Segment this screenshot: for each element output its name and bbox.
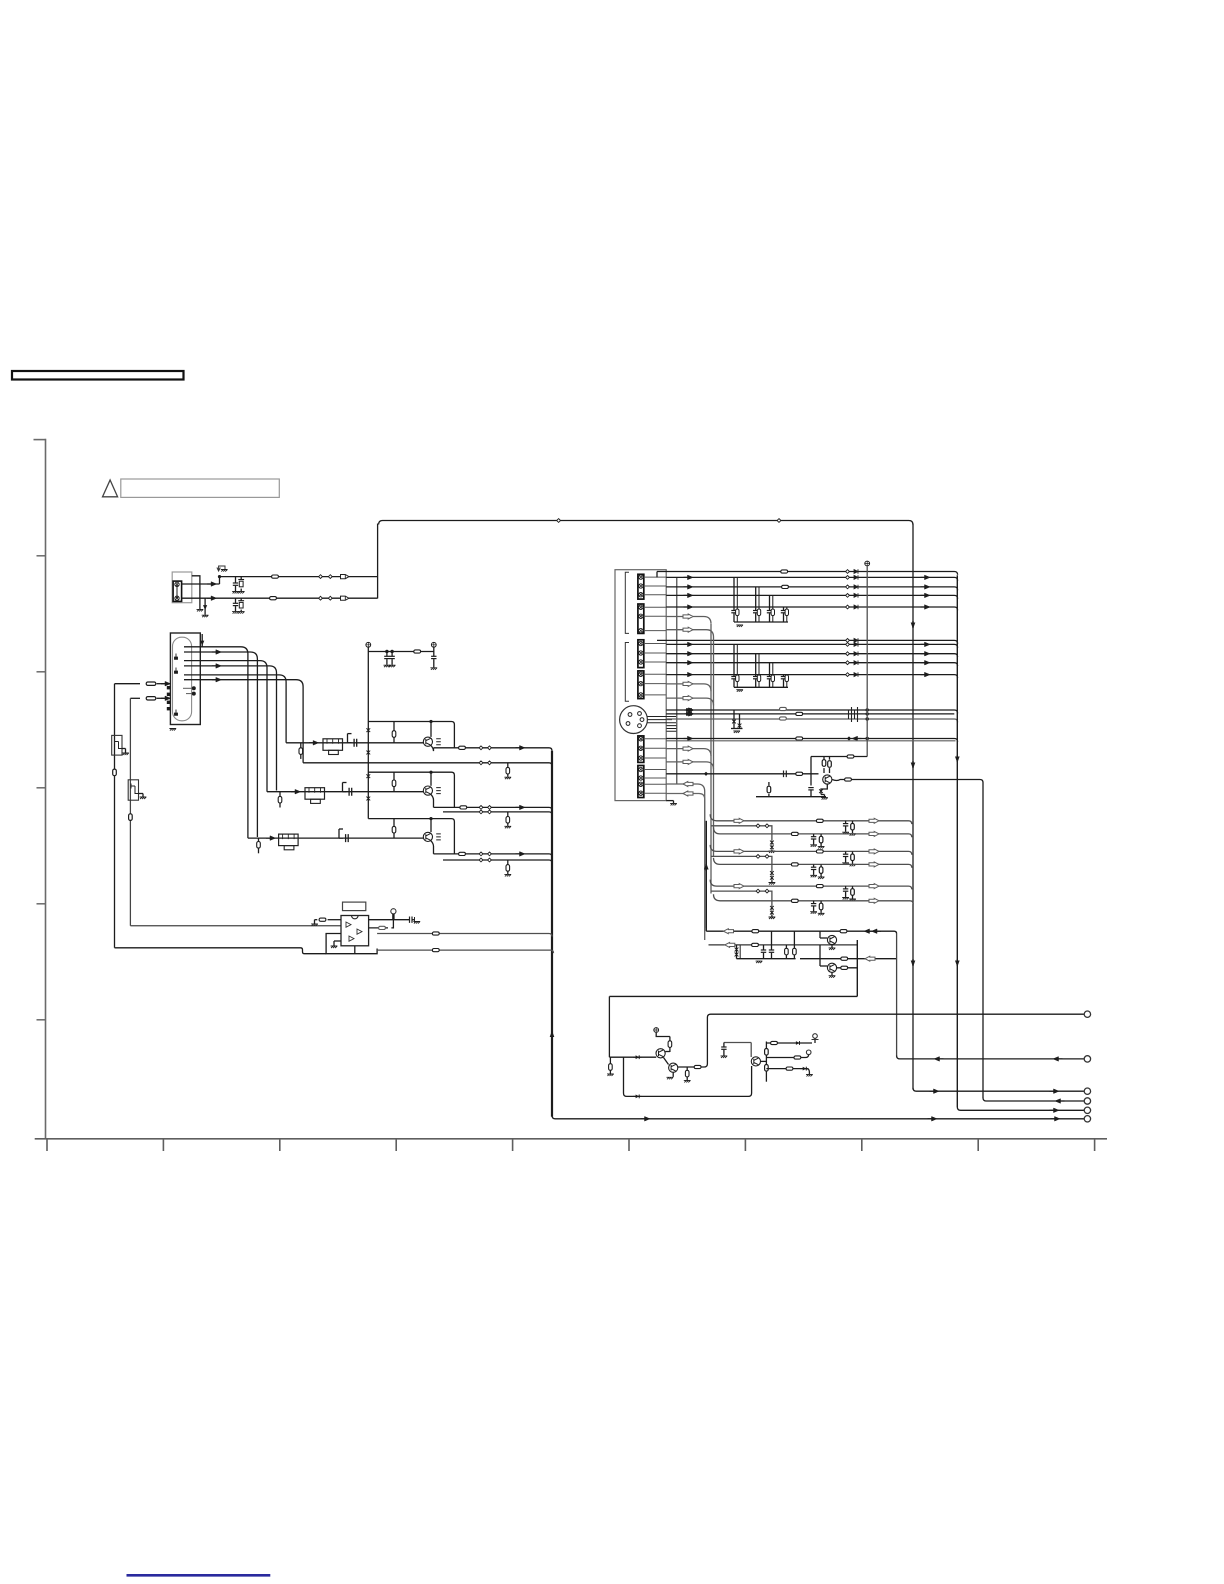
stub pin 2 block 2: [644, 615, 666, 617]
capacitor C1 to ground: [235, 577, 237, 583]
CN2 keying mark 1: [175, 654, 178, 660]
capacitor pair h833.9: [813, 834, 815, 837]
wire CN1 pin2 out: [182, 597, 378, 599]
wire monitor row 6: [714, 858, 912, 868]
junction dot rail a: [385, 650, 388, 653]
wire aux row 7: [666, 784, 705, 940]
pin 1 of block 1: [639, 575, 643, 579]
border bottom tick 7: [744, 1139, 746, 1151]
capacitor pair g886.1: [845, 886, 847, 889]
wire row W4 out: [666, 663, 957, 666]
ground Q10: [831, 973, 833, 976]
diode D2: [633, 1095, 642, 1099]
connector CN1 outer shell: [172, 572, 192, 603]
transistor Q1: [430, 722, 432, 737]
wire Q10 out: [837, 967, 858, 969]
signal arrow W2: [684, 642, 694, 647]
pin 3 of block 3: [639, 660, 643, 664]
ferrite bead on top lead: [272, 575, 279, 578]
bead mid out: [794, 1056, 801, 1059]
arrow down on CN2 entry: [201, 641, 204, 645]
terminal circle 6: [1084, 1116, 1090, 1122]
title block rectangle top-left: [12, 371, 184, 380]
open arrow aux row 3: [683, 681, 693, 686]
bead g886.1: [816, 885, 823, 888]
wire row 958 right: [800, 958, 897, 960]
ferrite bead output 2: [460, 806, 467, 809]
terminal circle 4: [1084, 1098, 1090, 1104]
wire U1 feedback loop: [326, 934, 377, 954]
ferrite bead on bottom lead: [270, 597, 277, 600]
wire aux row 1: [666, 617, 711, 624]
transistor Q8 switch box: [128, 780, 138, 800]
stub pin 3 block 4: [644, 694, 666, 696]
wire inner loop vertical: [129, 698, 131, 926]
diode pair row 5: [770, 871, 774, 876]
signal arrow V2: [684, 575, 694, 580]
capacitor column g2-3: [769, 663, 771, 677]
stub pin 1 block 4: [644, 673, 666, 675]
wire row video Y: [666, 710, 957, 713]
terminal circle mid: [806, 1050, 811, 1055]
signal arrow bottom bus b: [928, 1117, 938, 1122]
ground CN2: [169, 729, 176, 731]
open arrow aux row 7: [683, 782, 693, 787]
left arrow term4: [1055, 1099, 1065, 1104]
border bottom tick 4: [395, 1139, 397, 1151]
resistor bank r2: [793, 931, 795, 948]
wire bias bus B: [709, 944, 858, 946]
bead power elbow: [847, 755, 854, 758]
capacitor link hook C1: [347, 734, 349, 743]
capacitor coupling C1a: [348, 733, 352, 735]
thick arrow video Y: [685, 708, 695, 713]
resistor bias lower: [609, 1057, 611, 1064]
wire monitor row 7: [710, 880, 912, 890]
connector diamond sync: [847, 736, 851, 740]
power terminal U1: [391, 909, 396, 914]
junction dot rail b: [390, 650, 393, 653]
connector block CN3-3: [638, 640, 644, 668]
connector cluster W4: [846, 661, 850, 665]
pin 2 of block 3: [639, 651, 643, 655]
capacitor pair g820.8: [845, 821, 847, 824]
capacitor column g2-2: [755, 654, 757, 677]
signal arrow V3: [684, 585, 694, 590]
wire supply bus channel 2: [368, 772, 454, 807]
resistor bias R2: [393, 772, 395, 780]
bead row 958: [841, 957, 848, 960]
junction mark pair shield 3: [479, 858, 483, 862]
border left tick 3: [37, 787, 46, 789]
ferrite bead on rail: [414, 650, 421, 653]
ground Q7: [122, 748, 126, 750]
wire channel 1 signal row: [286, 742, 423, 744]
wire row V3 out: [666, 587, 957, 590]
bead sync: [796, 737, 803, 740]
connector CN1 body: [173, 581, 182, 601]
signal arrow channel 1: [309, 741, 319, 746]
resistor on loop inner: [129, 814, 133, 821]
label box above IC: [343, 902, 366, 911]
junction mark pair output 3: [479, 852, 483, 856]
power terminal Q11: [654, 1028, 659, 1033]
wire row video C: [666, 713, 954, 715]
junction diamonds row 8: [756, 889, 760, 893]
wire row sync shield: [666, 740, 955, 742]
border bottom tick 5: [512, 1139, 514, 1151]
CN2 inner pin b: [192, 692, 196, 696]
resistor on loop outer: [113, 769, 117, 776]
wire output row channel 3: [434, 854, 553, 857]
CN2 edge contact 2: [167, 693, 170, 696]
board-edge arrow on top lead: [341, 575, 349, 579]
connector cluster W5: [846, 673, 850, 677]
border left tick 2: [37, 671, 46, 673]
border bottom tick 9: [977, 1139, 979, 1151]
signal arrow into CN2 upper: [161, 681, 171, 686]
bead Q6 output: [845, 778, 852, 781]
CN1 drain wire: [204, 598, 206, 615]
CN2 keying mark 2: [175, 668, 178, 674]
resistor shield R1s: [507, 763, 509, 768]
wire Q11 collector: [665, 1051, 670, 1053]
signal arrow term5: [1050, 1108, 1060, 1113]
CN4 pin 1: [638, 712, 642, 716]
capacitor C4 electrolytic to ground: [240, 598, 242, 601]
wire fan wire 1: [184, 647, 248, 838]
wire fan wire 4: [184, 666, 277, 791]
delay line DL3: [279, 834, 299, 846]
diode column video a: [733, 710, 735, 726]
module internal riser: [676, 577, 678, 784]
wire U1 right pin2: [369, 920, 394, 928]
border frame top-left hook: [34, 439, 46, 441]
ground U1 pin1: [315, 919, 318, 921]
capacitor bank c2: [771, 931, 773, 950]
junction mark pair output 1: [479, 746, 483, 750]
capacitor emitter C2e: [436, 788, 441, 794]
wire Q9 base: [820, 937, 827, 939]
open arrow aux row 8: [683, 791, 693, 796]
border bottom tick 1: [46, 1139, 48, 1151]
diode column video b: [739, 714, 741, 729]
connector cluster V2: [846, 576, 850, 580]
CN2 edge contact 1: [167, 686, 170, 689]
module internal stub r1: [656, 572, 658, 578]
junction mark 2 on top bus: [777, 519, 781, 523]
resistor bias R3: [393, 819, 395, 827]
bead g851.4: [816, 850, 823, 853]
pin 3 of block 2: [639, 628, 643, 632]
ground Q8: [139, 793, 144, 795]
capacitor pair h864.4: [813, 864, 815, 867]
capacitor coupling C2a: [343, 782, 347, 784]
warning triangle: [103, 480, 118, 497]
terminal circle 3: [1084, 1088, 1090, 1094]
signal arrow channel 3: [266, 836, 276, 841]
capacitor column g1-1: [733, 577, 735, 610]
junction mark pair on top lead: [319, 575, 323, 579]
wire row video shield: [666, 719, 957, 722]
capacitor bank c1: [763, 945, 765, 950]
transistor Q3: [430, 819, 432, 833]
connector block CN3-5: [638, 736, 644, 763]
junction mark pair shield 2: [479, 810, 483, 814]
pin 2 of block 6: [639, 776, 643, 780]
wire aux row 6: [666, 762, 713, 769]
connector block CN3-4: [638, 671, 644, 699]
capacitor rail Cb: [391, 652, 393, 657]
open arrow aux row 6: [683, 759, 693, 764]
CN4 pin 2: [640, 718, 644, 722]
ferrite bead output 3: [459, 852, 466, 855]
wire terminal row 5: [957, 1107, 1084, 1110]
pin 1 of block 6: [639, 767, 643, 771]
open arrow bias A: [724, 929, 734, 934]
arrow down on drain: [204, 606, 207, 610]
ferrite bead U1 in: [319, 918, 326, 921]
wire black riser mid: [705, 821, 707, 931]
connector cluster V1: [846, 570, 850, 574]
thick arrow video C: [685, 712, 695, 717]
ferrite bead U1 out: [379, 926, 386, 929]
signal arrow V4 right: [921, 593, 931, 598]
bead Q12 out: [694, 1065, 701, 1068]
CN4 pin 4: [628, 713, 632, 717]
signal arrow W4 right: [921, 660, 931, 665]
signal arrow up riser: [704, 863, 709, 871]
signal arrow W3: [684, 651, 694, 656]
wire supply row Q13: [766, 1042, 812, 1044]
wire row V5 out: [666, 607, 957, 610]
connector CN1 pin 1: [175, 582, 179, 586]
pin 3 of block 5: [639, 756, 643, 760]
signal arrow term3 a: [930, 1089, 940, 1094]
diode pair row 8: [770, 905, 774, 910]
terminal circle 5: [1084, 1107, 1090, 1113]
wire row W1 out: [657, 640, 958, 643]
signal arrow W4: [684, 660, 694, 665]
transistor Q9: [827, 935, 836, 944]
signal arrow on fan wire 6: [212, 677, 222, 682]
warning label box: [121, 479, 279, 497]
diode pair row 2: [770, 840, 774, 845]
wire U1 bottom pin: [354, 946, 356, 954]
signal arrow sync: [684, 736, 694, 741]
wire fan wire 6: [184, 680, 303, 763]
signal arrow on fan wire 4: [212, 664, 222, 669]
diode Q6 emitter: [821, 784, 827, 794]
left arrow term2 b: [1053, 1057, 1063, 1062]
signal arrow V5 right: [921, 605, 931, 610]
stub pin 1 block 3: [644, 643, 666, 645]
junction mark pair output 2: [479, 806, 483, 810]
connector block CN3-6: [638, 766, 644, 798]
stub pin 1 block 5: [644, 738, 666, 740]
open arrow h833.9 R: [869, 831, 879, 836]
junction dot sync: [866, 737, 869, 740]
wire Q13 right node: [761, 1060, 767, 1062]
bead bias A: [752, 930, 759, 933]
wire drop to bias: [608, 996, 610, 1057]
open arrow aux row 1: [683, 614, 693, 619]
wire fan wire 5: [184, 675, 286, 743]
op-amp IC U1: [341, 916, 369, 946]
signal arrow on fan wire 2: [212, 650, 222, 655]
signal arrow bottom bus a: [641, 1117, 651, 1122]
wire monitor row 9: [714, 894, 914, 904]
connector block CN3-2: [638, 604, 644, 633]
diode col bank a: [736, 945, 738, 959]
transistor Q11: [656, 1049, 665, 1058]
bead Q6 base: [796, 772, 803, 775]
CN2 edge contact 3: [167, 701, 170, 704]
wire right bus 2 vertical: [956, 575, 958, 1107]
resistor bank r1: [785, 945, 787, 948]
wire row V4 out: [666, 595, 957, 598]
wire monitor row 4: [710, 845, 912, 855]
connector CN4 circular: [620, 706, 648, 734]
open arrow row 958: [865, 956, 875, 961]
wire mid out row: [766, 1054, 808, 1057]
border bottom tick 10: [1094, 1139, 1096, 1151]
CN2 inner stub a: [183, 687, 192, 689]
stub pin 3 block 3: [644, 661, 666, 663]
connector block CN3-1: [638, 574, 644, 599]
resistor Q12 emitter: [686, 1067, 688, 1070]
resistor Q13 b: [765, 1065, 769, 1072]
signal arrow on pin1 wire: [207, 582, 217, 587]
wire channel 3 signal row: [248, 837, 423, 839]
diode col bank b: [739, 945, 741, 959]
wire aux row 2: [666, 630, 713, 637]
capacitor C2 electrolytic to ground: [240, 577, 242, 580]
wire power elbow: [811, 756, 867, 758]
power terminal V1: [366, 642, 371, 647]
resistor Q13 a: [765, 1049, 769, 1056]
stub pin 2 block 4: [644, 683, 666, 685]
stub pin 2 block 6: [644, 777, 666, 779]
signal arrow term3 b: [1050, 1089, 1060, 1094]
border bottom tick 3: [279, 1139, 281, 1151]
ground rail bank: [737, 958, 796, 960]
module board outline: [615, 570, 666, 801]
open arrow h900.8 R: [869, 898, 879, 903]
pin 3 of block 6: [639, 782, 643, 786]
capacitor column g2-4: [783, 675, 785, 677]
resistor Q11 collector: [669, 1037, 671, 1041]
stub pin 3 block 5: [644, 757, 666, 759]
capacitor emitter C1e: [436, 739, 441, 745]
CN2 inner pin a: [192, 686, 196, 690]
ground Q9: [831, 945, 833, 948]
wire monitor row 5: [711, 856, 772, 870]
pin 4 of block 6: [639, 791, 643, 795]
resistor Q6 emitter: [768, 794, 770, 797]
wire monitor row 8: [711, 891, 772, 906]
capacitor link hook C2: [342, 783, 344, 792]
resistor shield R3s: [507, 860, 509, 865]
pin 3 of block 4: [639, 693, 643, 697]
signal arrow into CN2 lower: [161, 696, 171, 701]
delay line DL1: [323, 739, 343, 751]
pin 1 of block 5: [639, 737, 643, 741]
wire Q6 emitter rail: [756, 796, 826, 798]
pin 2 of block 2: [639, 614, 643, 618]
ground Q12: [672, 1073, 674, 1077]
wire shield row channel 2: [443, 812, 552, 815]
wire left loop outer vertical: [114, 684, 116, 948]
left arrow term2 a: [934, 1057, 944, 1062]
pin 2 of block 5: [639, 746, 643, 750]
resistor R in1: [115, 683, 141, 685]
wire emitter out channel 1: [431, 745, 434, 751]
stub pin 3 block 2: [644, 630, 666, 632]
junction mark pair on bottom lead: [319, 596, 323, 600]
capacitor Q6 coupling: [784, 771, 787, 778]
resistor ch2 terminator: [279, 792, 281, 797]
wire supply vertical: [367, 652, 369, 819]
ground rail group2: [734, 686, 788, 688]
signal arrow down right bus2 b: [955, 959, 960, 967]
wire monitor row 3: [714, 827, 912, 837]
open arrow g820.8 R: [869, 818, 879, 823]
capacitor rail Cc: [433, 652, 435, 657]
transistor Q13: [751, 1057, 760, 1066]
pin 1 of block 3: [639, 641, 643, 645]
signal arrow W2 right: [921, 642, 931, 647]
connector CN1 inner wire: [176, 584, 178, 598]
capacitor emitter C3e: [436, 834, 441, 840]
wire terminal row 2: [897, 1056, 1084, 1059]
open arrow g886.1 R: [869, 884, 879, 889]
capacitor column g2-1: [733, 644, 735, 676]
resistor Q6 load b: [829, 757, 831, 760]
diode mark supply 2: [366, 750, 370, 755]
capacitor C3 to ground: [235, 598, 237, 603]
wire left loop bottom: [115, 948, 327, 954]
border left tick 1: [37, 555, 46, 557]
resistor Q6 load a: [823, 768, 825, 773]
ground Q6: [821, 794, 825, 796]
signal arrow V5: [684, 605, 694, 610]
wire bias branch down: [624, 1057, 752, 1096]
stub pin 2 block 3: [644, 652, 666, 654]
wire row V2 out: [666, 577, 957, 580]
capacitor pair h900.8: [813, 901, 815, 904]
diode mark supply 3: [366, 774, 370, 779]
bead video C: [796, 712, 803, 715]
wire supply bus channel 3: [368, 819, 454, 854]
diode D3: [793, 1041, 802, 1045]
power terminal module: [865, 561, 870, 566]
wire U1 right pin1: [369, 919, 410, 921]
wire right drop: [896, 934, 898, 1057]
CN4 pin 5: [626, 722, 630, 726]
border bottom tick 2: [162, 1139, 164, 1151]
wire row W2 out: [666, 644, 957, 647]
capacitor coupling C1b: [348, 739, 357, 747]
ground video pair: [731, 728, 743, 730]
transistor Q2: [430, 772, 432, 786]
stub pin 3 block 1: [644, 594, 666, 596]
capacitor coupling C3a: [339, 828, 343, 830]
open arrow aux row 2: [683, 627, 693, 632]
wire terminal row 3: [913, 1088, 1084, 1091]
transistor Q7 switch box: [112, 735, 122, 755]
resistor shield R2s: [507, 812, 509, 817]
